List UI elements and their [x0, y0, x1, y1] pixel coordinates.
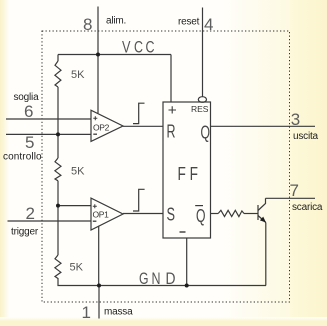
dotted boundary rectangle — [42, 31, 290, 302]
wire OP2 power from VCC — [97, 55, 99, 114]
svg-text:C: C — [146, 39, 155, 57]
FF minus pin marker — [180, 231, 186, 233]
svg-text:8: 8 — [83, 15, 92, 34]
svg-text:alim.: alim. — [106, 16, 126, 27]
OP1 plus marker — [93, 204, 97, 208]
svg-text:massa: massa — [104, 307, 133, 318]
left yellow gradient strip — [0, 0, 10, 326]
svg-text:C: C — [134, 39, 143, 57]
svg-text:7: 7 — [290, 181, 299, 200]
wire reset pin4 vertical — [202, 8, 204, 97]
wire divider chain top lead — [57, 55, 59, 62]
junction node B OP1+ — [56, 204, 60, 208]
svg-text:N: N — [152, 270, 161, 288]
svg-text:Q: Q — [201, 123, 211, 143]
svg-text:5: 5 — [25, 133, 34, 152]
svg-text:soglia: soglia — [14, 92, 40, 103]
rising edge glyph at OP2 output — [133, 103, 145, 123]
svg-text:F F: F F — [178, 164, 199, 184]
wire emitter down to GND — [265, 223, 267, 286]
svg-text:controllo: controllo — [3, 152, 42, 163]
svg-text:6: 6 — [24, 102, 33, 121]
svg-text:reset: reset — [178, 17, 200, 28]
svg-text:V: V — [122, 39, 131, 57]
OP1 minus marker — [93, 220, 97, 222]
svg-text:OP2: OP2 — [93, 123, 110, 133]
wire Qbar output — [211, 213, 219, 215]
junction node A pin5 — [56, 132, 60, 136]
wire node B to OP1 plus input — [58, 205, 91, 207]
svg-text:RES: RES — [191, 104, 209, 114]
svg-text:2: 2 — [26, 204, 35, 223]
wire pin2 trigger — [8, 220, 92, 222]
right yellow column — [290, 0, 327, 326]
wire pin8 vertical — [97, 7, 99, 55]
svg-text:Q: Q — [196, 206, 206, 226]
wire pin6 soglia — [6, 118, 91, 120]
FF plus pin marker — [169, 106, 177, 113]
junction VCC/pin8 — [96, 53, 100, 57]
rising edge glyph at OP1 output — [133, 189, 145, 211]
svg-text:S: S — [167, 205, 176, 225]
resistor R3 5K bottom — [55, 255, 61, 279]
op-amp OP2 — [91, 110, 123, 141]
resistor R2 5K middle — [55, 158, 61, 181]
Qbar overbar — [195, 205, 203, 207]
transistor Q1 base bar — [257, 205, 259, 220]
op-amp OP1 — [91, 198, 123, 230]
resistor R1 5K top — [55, 61, 61, 87]
svg-text:5K: 5K — [71, 69, 85, 81]
inverter bubble on RES — [198, 97, 206, 103]
svg-text:uscita: uscita — [293, 131, 319, 142]
flip-flop FF box — [163, 102, 211, 238]
transistor Q1 emitter — [258, 216, 266, 223]
svg-text:3: 3 — [291, 110, 300, 129]
svg-text:D: D — [166, 270, 176, 288]
wire chain bottom to GND — [58, 278, 99, 286]
wire Q output to pin3 — [211, 125, 316, 127]
wire resistor to base — [244, 213, 258, 215]
junction GND/FF pin — [185, 284, 189, 288]
wire pin5 controllo — [6, 133, 91, 135]
svg-text:R: R — [167, 122, 176, 142]
wire OP2 output to R — [123, 125, 163, 127]
wire OP1 power to GND — [98, 226, 100, 286]
wire GND rail — [99, 285, 266, 287]
wire chain R1 to node A — [57, 87, 59, 158]
svg-text:G: G — [139, 270, 149, 288]
wire chain R2 to node B — [57, 181, 59, 255]
mid-right cream fade — [222, 0, 290, 326]
svg-text:scarica: scarica — [292, 202, 323, 213]
svg-text:1: 1 — [82, 303, 91, 322]
svg-text:4: 4 — [204, 15, 213, 34]
transistor Q1 collector — [258, 198, 266, 210]
svg-text:5K: 5K — [70, 262, 84, 274]
wire FF bottom pin to GND — [186, 238, 188, 286]
wire OP1 output to S — [123, 213, 163, 215]
wire FF plus pin from VCC — [170, 55, 172, 103]
wire pin7 scarica — [266, 197, 316, 199]
wire VCC rail — [58, 54, 171, 56]
wire pin1 vertical — [98, 286, 100, 319]
bottom yellow strip — [0, 317, 327, 326]
OP2 plus marker — [93, 116, 97, 120]
resistor base R horizontal — [218, 210, 244, 216]
OP2 minus marker — [93, 133, 97, 135]
svg-text:trigger: trigger — [11, 227, 39, 238]
transistor emitter arrowhead — [260, 217, 266, 223]
junction GND/pin1 — [97, 284, 101, 288]
svg-text:5K: 5K — [71, 166, 85, 178]
svg-text:OP1: OP1 — [93, 210, 110, 220]
